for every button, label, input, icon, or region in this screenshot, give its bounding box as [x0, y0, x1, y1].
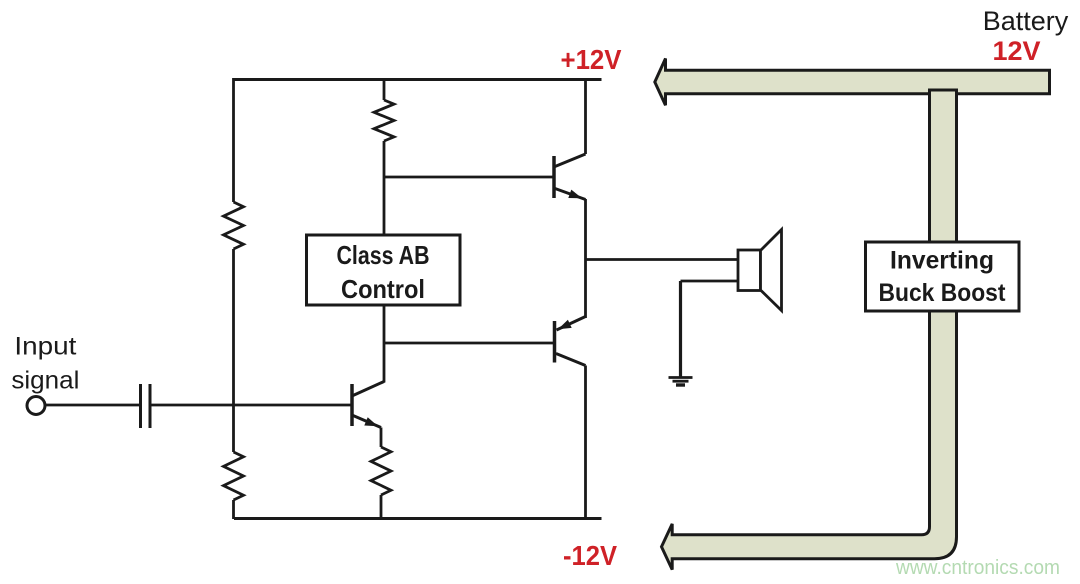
input terminal — [27, 397, 45, 415]
Inverting Buck Boost box — [866, 242, 1020, 311]
ground — [669, 378, 693, 386]
svg-text:Inverting: Inverting — [890, 247, 994, 275]
wire — [586, 258, 739, 261]
transistor Q2 — [555, 317, 586, 366]
svg-text:-12V: -12V — [563, 540, 617, 571]
transistor Q1 — [554, 154, 586, 200]
svg-text:Buck Boost: Buck Boost — [879, 279, 1007, 307]
-12V rail — [234, 517, 602, 520]
resistor R1 — [224, 202, 244, 249]
wire — [152, 404, 353, 407]
wire — [681, 280, 739, 283]
svg-text:www.cntronics.com: www.cntronics.com — [895, 557, 1060, 579]
svg-text:Class AB: Class AB — [337, 240, 430, 270]
label 12V — [992, 36, 1040, 66]
wire — [380, 495, 383, 519]
svg-text:Battery: Battery — [983, 6, 1069, 36]
label +12V — [561, 44, 622, 75]
svg-text:12V: 12V — [992, 36, 1040, 66]
svg-text:signal: signal — [11, 367, 79, 395]
capacitor C1 — [141, 384, 151, 428]
wire — [384, 176, 554, 179]
wire — [232, 249, 235, 452]
+12V rail — [234, 78, 602, 81]
wire — [380, 428, 383, 448]
resistor R4 — [371, 447, 391, 495]
wire — [383, 78, 386, 100]
svg-text:+12V: +12V — [561, 44, 622, 75]
battery feed arrow -12V — [662, 306, 957, 570]
svg-text:Input: Input — [14, 333, 76, 361]
wire — [232, 500, 235, 519]
svg-text:Control: Control — [341, 274, 425, 304]
resistor R2 — [224, 452, 244, 500]
wire — [584, 199, 587, 318]
transistor Q3 — [352, 382, 384, 428]
label Input signal — [11, 333, 79, 395]
wire — [584, 78, 587, 154]
watermark — [895, 557, 1060, 579]
wire — [383, 141, 386, 235]
wire — [384, 342, 555, 345]
resistor R3 — [374, 100, 394, 141]
label -12V — [563, 540, 617, 571]
Class AB Control box — [307, 235, 461, 305]
label Battery — [983, 6, 1069, 36]
wire — [584, 366, 587, 520]
battery feed arrow +12V — [655, 59, 1050, 106]
battery feed bar — [930, 90, 957, 255]
speaker — [738, 230, 782, 311]
wire — [232, 78, 235, 202]
wire — [45, 404, 139, 407]
wire — [383, 305, 386, 383]
wire — [679, 281, 682, 377]
